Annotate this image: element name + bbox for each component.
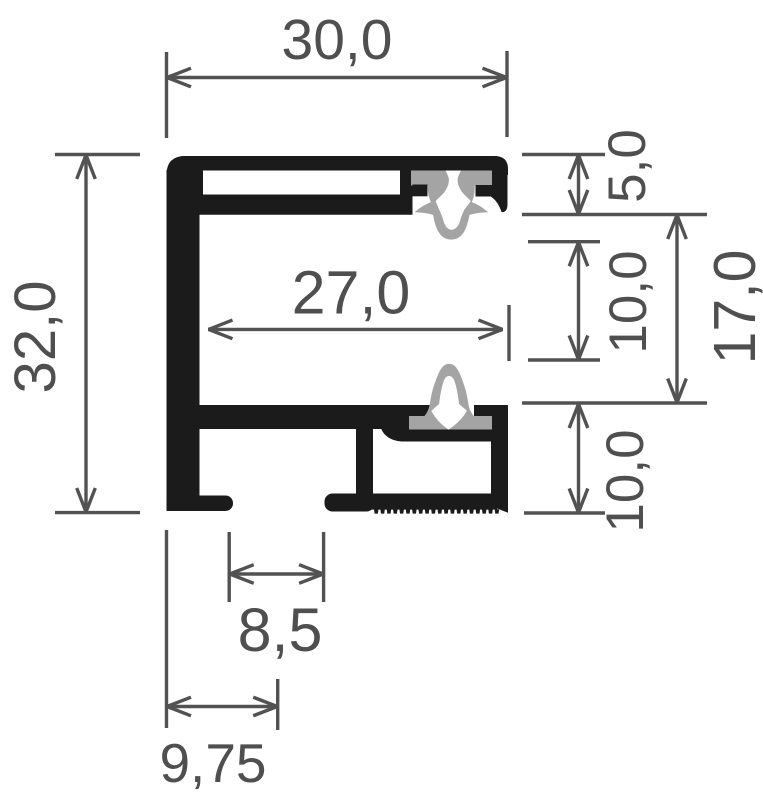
svg-text:27,0: 27,0 bbox=[292, 259, 411, 327]
top gasket white spearhead bbox=[436, 171, 471, 230]
dim 5,0 lines bbox=[522, 155, 707, 215]
profile left wall bbox=[167, 170, 200, 511]
profile bottom bar serrated bbox=[371, 494, 497, 510]
profile top gasket right jaw bbox=[476, 185, 493, 197]
dim 30,0 right ext bbox=[505, 51, 508, 137]
top slot white bbox=[203, 171, 400, 195]
profile top strip bbox=[167, 156, 509, 175]
svg-text:8,5: 8,5 bbox=[238, 596, 323, 664]
profile bottom bar left bbox=[325, 494, 375, 512]
svg-text:32,0: 32,0 bbox=[3, 281, 68, 394]
profile right wall bottom bbox=[491, 405, 508, 513]
dim 9,75 lines bbox=[167, 530, 278, 730]
dim 8,5 lines bbox=[229, 532, 323, 602]
dim 27,0 line bbox=[208, 305, 509, 361]
dim mid 10,0 lines bbox=[528, 242, 600, 360]
top gasket left wing bbox=[415, 200, 438, 215]
profile middle web bbox=[199, 405, 432, 429]
bottom gasket bell bbox=[424, 364, 474, 417]
profile bottom-right deep block bbox=[380, 405, 508, 442]
top gasket right wing bbox=[465, 200, 488, 215]
svg-text:17,0: 17,0 bbox=[702, 250, 763, 365]
dim 17,0 lines bbox=[668, 215, 687, 403]
svg-text:10,0: 10,0 bbox=[599, 250, 658, 353]
dim 30,0 line bbox=[167, 51, 508, 138]
svg-text:9,75: 9,75 bbox=[159, 732, 266, 794]
dim 32,0 lines bbox=[55, 155, 140, 513]
svg-text:10,0: 10,0 bbox=[596, 429, 655, 532]
bottom gasket bar bbox=[409, 416, 492, 430]
svg-text:30,0: 30,0 bbox=[282, 8, 393, 72]
bottom gasket white interior bbox=[431, 376, 467, 430]
profile top gasket left jaw bbox=[413, 185, 428, 197]
profile bottom-left foot bbox=[167, 496, 234, 512]
serration teeth bbox=[374, 509, 499, 513]
top gasket loop blob bbox=[428, 185, 475, 240]
dim low 10,0 lines bbox=[522, 403, 707, 513]
dim 30,0 left ext bbox=[165, 52, 168, 138]
profile top-left block with slot area bbox=[167, 156, 413, 215]
dim 30,0 arrows bbox=[167, 68, 507, 87]
profile right wall top bbox=[491, 156, 508, 212]
profile screw-channel divider bbox=[356, 425, 373, 495]
svg-text:5,0: 5,0 bbox=[598, 129, 657, 203]
top gasket bar bbox=[411, 171, 492, 186]
